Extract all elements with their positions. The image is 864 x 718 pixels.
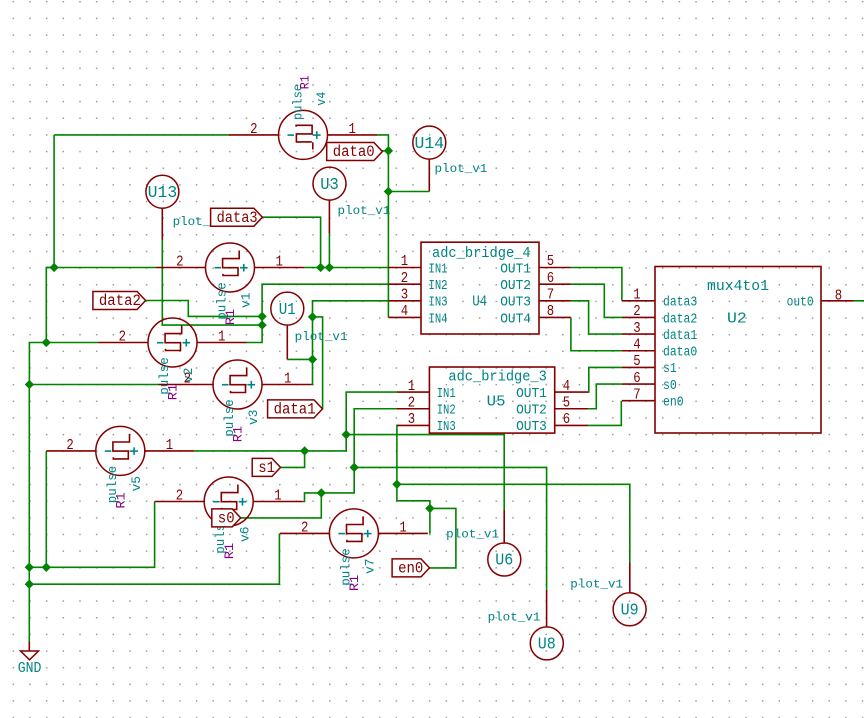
- svg-text:R1: R1: [223, 309, 238, 326]
- mux4to1 U2 box: [655, 267, 821, 434]
- plot_v1 U13: [161, 208, 163, 239]
- junction data0 label: [384, 146, 393, 155]
- plot_v1 U8: [546, 590, 548, 627]
- svg-text:6: 6: [633, 370, 640, 387]
- svg-text:1: 1: [408, 378, 415, 395]
- svg-text:4: 4: [401, 303, 408, 320]
- svg-text:5: 5: [563, 394, 570, 411]
- pulse source V5 (s1): [96, 426, 145, 475]
- junction at rail v1 row: [49, 263, 58, 272]
- svg-text:v1: v1: [239, 292, 254, 308]
- global label data0: [327, 143, 383, 161]
- svg-text:2: 2: [250, 121, 257, 138]
- svg-text:s0: s0: [218, 510, 235, 528]
- global label data2: [93, 292, 146, 310]
- pulse source V3 (data1): [213, 360, 262, 409]
- wire: rail jog v2 row to v3 row: [29, 343, 46, 385]
- svg-text:data1: data1: [663, 329, 697, 344]
- svg-text:OUT3: OUT3: [500, 296, 531, 311]
- svg-text:mux4to1: mux4to1: [707, 278, 769, 295]
- wire: en0 label loop: [430, 508, 456, 568]
- svg-text:1: 1: [401, 253, 408, 270]
- svg-text:data3: data3: [217, 209, 258, 227]
- wire: U4 OUT4 to mux data0: [571, 317, 622, 350]
- svg-text:U13: U13: [148, 184, 178, 203]
- svg-text:U5: U5: [487, 394, 506, 411]
- wire: U4 OUT1 to mux data3: [571, 268, 622, 301]
- plot_v1 U3: [328, 200, 330, 234]
- svg-text:U14: U14: [415, 135, 445, 154]
- svg-text:R1: R1: [166, 384, 181, 401]
- wire: s1 net branch to U6 plot: [346, 435, 504, 510]
- wire: ground rail down to GND: [28, 385, 30, 643]
- svg-text:IN2: IN2: [429, 279, 448, 294]
- svg-text:2: 2: [184, 371, 191, 388]
- junction en0 net: [392, 480, 401, 489]
- junction s0 label branch: [317, 488, 326, 497]
- svg-text:U6: U6: [495, 552, 513, 571]
- svg-text:OUT2: OUT2: [516, 404, 547, 419]
- svg-text:v6: v6: [237, 527, 252, 542]
- svg-text:en0: en0: [398, 560, 423, 578]
- wire: v2 pin1 up to U4 IN2: [247, 284, 389, 342]
- svg-text:8: 8: [835, 288, 842, 305]
- U4 pin leads right: [539, 267, 571, 269]
- svg-text:plot_v1: plot_v1: [435, 162, 488, 176]
- svg-text:out0: out0: [787, 296, 814, 311]
- svg-text:adc_bridge_4: adc_bridge_4: [432, 245, 531, 262]
- svg-text:OUT3: OUT3: [516, 420, 547, 435]
- wire: U5 OUT2 to mux s0: [588, 384, 622, 409]
- plot_v1 U1: [286, 325, 288, 359]
- svg-text:IN2: IN2: [437, 404, 456, 419]
- svg-text:6: 6: [547, 270, 554, 287]
- svg-text:IN3: IN3: [437, 420, 456, 435]
- svg-text:OUT1: OUT1: [500, 262, 531, 277]
- svg-text:plot_v1: plot_v1: [488, 610, 541, 624]
- svg-text:data3: data3: [663, 296, 697, 311]
- svg-text:3: 3: [633, 320, 640, 337]
- svg-text:2: 2: [176, 254, 183, 271]
- junction s1 label branch: [300, 446, 309, 455]
- adc_bridge_3 U5 box: [429, 367, 554, 433]
- svg-text:1: 1: [633, 287, 640, 304]
- svg-text:plot_v1: plot_v1: [570, 577, 623, 591]
- wire: U13 plot wire down and right: [162, 240, 262, 326]
- svg-text:1: 1: [284, 371, 291, 388]
- wire: v3 row left segment: [29, 384, 158, 386]
- junction U8 branch: [350, 463, 359, 472]
- svg-text:3: 3: [408, 411, 415, 428]
- svg-text:OUT2: OUT2: [500, 279, 531, 294]
- wire: v2 row left segment: [46, 342, 98, 344]
- wire: U5 OUT3 to mux en0: [588, 401, 621, 426]
- wire: mux out0 to edge: [854, 300, 864, 302]
- wire: U5 OUT1 to mux s1: [588, 367, 622, 392]
- svg-text:data0: data0: [333, 143, 375, 161]
- svg-text:R1: R1: [114, 492, 129, 509]
- svg-text:2: 2: [401, 270, 408, 287]
- junction data1 label jog: [308, 312, 317, 321]
- svg-text:data1: data1: [274, 401, 316, 419]
- svg-text:R1: R1: [222, 543, 237, 560]
- pulse source V2 (data2): [148, 318, 197, 367]
- wire: data1 label up-jog to data1 net: [313, 317, 323, 409]
- U5 pin leads left: [397, 391, 429, 393]
- wire: v1 row left segment: [46, 267, 156, 269]
- svg-text:3: 3: [401, 287, 408, 304]
- svg-text:2: 2: [66, 437, 73, 454]
- svg-text:GND: GND: [18, 660, 42, 677]
- wire: v5 pin1 to U5 IN1: [194, 392, 397, 451]
- svg-text:U8: U8: [538, 636, 556, 655]
- wire: U3 plot wire vertical: [328, 234, 330, 268]
- wire: en0 net jog up to U5 IN3: [397, 425, 430, 508]
- svg-text:1: 1: [274, 488, 281, 505]
- svg-text:1: 1: [218, 329, 225, 346]
- pulse source V1 (data3): [206, 243, 255, 292]
- wire: left rail from v4 row down to v1 row: [53, 135, 55, 268]
- svg-text:plot_v1: plot_v1: [295, 330, 348, 344]
- svg-text:6: 6: [563, 411, 570, 428]
- wire: gnd horizontal to v7 drop: [29, 533, 279, 584]
- svg-text:2: 2: [633, 303, 640, 320]
- svg-text:1: 1: [399, 519, 406, 536]
- junction at rail v3 row: [25, 380, 34, 389]
- U2 out0 pin lead: [821, 300, 854, 302]
- svg-text:en0: en0: [663, 396, 684, 411]
- junction U14 branch: [384, 187, 393, 196]
- svg-text:U4: U4: [472, 294, 487, 311]
- junction U13 branch: [257, 320, 266, 329]
- pulse source V7 (en0): [329, 509, 378, 558]
- ground symbol GND: [28, 642, 30, 651]
- svg-text:s1: s1: [258, 459, 275, 477]
- junction U3 at v1 row: [325, 263, 334, 272]
- svg-text:R1: R1: [298, 75, 313, 89]
- svg-text:v4: v4: [314, 92, 329, 106]
- svg-text:4: 4: [633, 336, 640, 353]
- svg-text:s1: s1: [663, 362, 677, 377]
- junction at gnd rail y567: [25, 563, 34, 572]
- svg-text:data2: data2: [663, 312, 697, 327]
- svg-text:2: 2: [408, 394, 415, 411]
- svg-text:R1: R1: [231, 426, 246, 443]
- junction at gnd rail y584: [25, 580, 34, 589]
- plot_v1 U6: [503, 510, 505, 543]
- wire: U4 OUT3 to mux data1: [571, 301, 622, 334]
- svg-text:IN3: IN3: [429, 296, 448, 311]
- svg-text:plot_v1: plot_v1: [338, 204, 391, 218]
- svg-text:1: 1: [166, 437, 173, 454]
- wire: U1 plot wire to data1 net: [287, 358, 312, 360]
- svg-text:1: 1: [349, 121, 356, 138]
- svg-text:data2: data2: [99, 292, 141, 310]
- svg-text:v5: v5: [129, 476, 144, 491]
- svg-text:OUT1: OUT1: [516, 387, 547, 402]
- junction data3 at v1 row: [316, 263, 325, 272]
- junction U1 branch: [308, 355, 317, 364]
- adc_bridge_4 U4 box: [421, 242, 539, 334]
- svg-text:IN1: IN1: [429, 262, 448, 277]
- wire: data0 label stub: [379, 150, 388, 152]
- wire: v5 pin2 drop: [45, 451, 47, 567]
- pulse source V6 (s0): [204, 477, 253, 526]
- svg-text:IN1: IN1: [437, 387, 456, 402]
- svg-text:plot_v1: plot_v1: [446, 527, 499, 541]
- svg-text:U9: U9: [621, 602, 639, 621]
- wire: gnd horizontal to v6 drop: [29, 502, 154, 568]
- svg-text:2: 2: [119, 329, 126, 346]
- global label data1: [268, 400, 323, 418]
- wire: s1 label branch: [281, 451, 305, 468]
- junction data2 jog: [257, 312, 266, 321]
- wire: s0 label branch: [241, 493, 322, 518]
- junction v5 drop: [42, 563, 51, 572]
- plot_v1 U9: [629, 563, 631, 593]
- wire: U4 OUT2 to mux data2: [571, 284, 622, 317]
- global label data3: [211, 208, 263, 226]
- svg-text:7: 7: [633, 386, 640, 403]
- plot_v1 U14: [428, 159, 430, 191]
- wire: v6 pin1 up-jog to s0 net: [303, 409, 397, 502]
- wire: v4 row horizontal: [54, 134, 229, 136]
- svg-text:v3: v3: [246, 410, 261, 425]
- svg-text:s0: s0: [663, 379, 677, 394]
- wire: v1 row right segment to U4 IN1: [304, 267, 388, 269]
- wire: v3 pin1 up to U4 IN3: [312, 301, 389, 385]
- svg-text:U1: U1: [279, 301, 296, 320]
- wire: v7 pin1 up to en0 net: [429, 508, 431, 533]
- svg-text:7: 7: [547, 287, 554, 304]
- U2 pin leads left: [622, 300, 655, 302]
- svg-text:IN4: IN4: [429, 312, 448, 327]
- wire: U14 plot wire horizontal: [388, 191, 429, 193]
- svg-text:U3: U3: [320, 176, 339, 195]
- junction v7 pin1: [425, 504, 434, 513]
- svg-text:1: 1: [276, 254, 283, 271]
- svg-text:8: 8: [547, 303, 554, 320]
- svg-text:5: 5: [547, 253, 554, 270]
- svg-text:data0: data0: [663, 346, 697, 361]
- U5 pin leads right: [555, 391, 589, 393]
- svg-text:2: 2: [301, 519, 308, 536]
- svg-text:5: 5: [633, 353, 640, 370]
- global label s1: [252, 458, 280, 476]
- svg-text:adc_bridge_3: adc_bridge_3: [448, 369, 547, 386]
- svg-text:U2: U2: [727, 311, 747, 328]
- svg-text:4: 4: [563, 378, 570, 395]
- svg-text:OUT4: OUT4: [500, 312, 531, 327]
- global label en0: [392, 559, 429, 577]
- wire: en0 net branch to U9 plot: [397, 484, 630, 562]
- wire: data2 label jog to v2 net: [146, 301, 263, 317]
- wire: rail jog v1 row to v2 row: [46, 268, 54, 343]
- junction U6 branch: [342, 430, 351, 439]
- pulse source V4 (data0): [279, 110, 328, 159]
- U4 pin leads left: [388, 267, 421, 269]
- svg-text:2: 2: [176, 488, 183, 505]
- svg-text:R1: R1: [347, 575, 362, 592]
- wire: v4 pin1 to data0 net corner: [377, 135, 388, 318]
- junction at rail v2 row: [42, 338, 51, 347]
- svg-text:v7: v7: [363, 559, 378, 574]
- global label s0: [212, 509, 241, 527]
- wire: data3 label to v1 row: [262, 217, 320, 267]
- wire: s0 net branch to U8 plot: [354, 467, 546, 589]
